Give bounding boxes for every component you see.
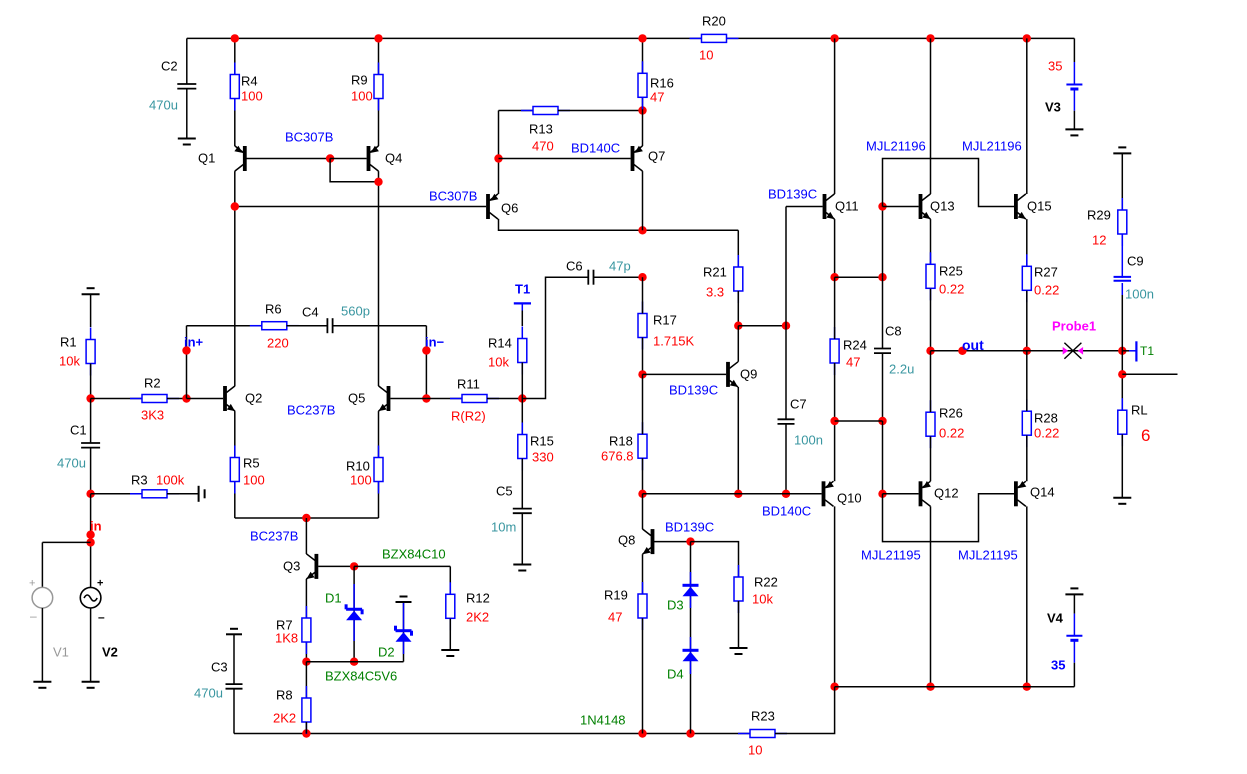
svg-text:D2: D2 [378,645,395,660]
svg-text:R(R2): R(R2) [451,409,486,424]
svg-text:–: – [98,610,105,624]
svg-text:C3: C3 [211,660,228,675]
svg-text:1.715K: 1.715K [653,334,695,349]
svg-text:R21: R21 [703,265,727,280]
svg-text:Q6: Q6 [501,201,518,216]
svg-text:MJL21196: MJL21196 [962,139,1022,154]
svg-text:R1: R1 [60,335,77,350]
svg-text:12: 12 [1092,233,1106,248]
svg-text:676.8: 676.8 [601,449,634,464]
svg-text:Q13: Q13 [930,199,955,214]
svg-text:Q5: Q5 [348,391,365,406]
svg-text:Q3: Q3 [283,559,300,574]
svg-text:3K3: 3K3 [141,408,164,423]
svg-text:R20: R20 [702,14,726,29]
svg-text:R2: R2 [144,376,161,391]
svg-text:+: + [29,578,35,590]
svg-text:in−: in− [425,335,445,350]
svg-text:C4: C4 [302,305,319,320]
svg-text:Q10: Q10 [837,491,862,506]
svg-text:BD139C: BD139C [665,520,714,535]
svg-text:100k: 100k [156,473,185,488]
svg-text:out: out [962,337,984,353]
svg-text:Q8: Q8 [618,533,635,548]
svg-text:470u: 470u [57,456,86,471]
svg-text:R17: R17 [653,313,677,328]
svg-text:R22: R22 [754,575,778,590]
svg-text:R29: R29 [1087,208,1111,223]
svg-text:10: 10 [699,48,713,63]
svg-text:330: 330 [532,450,554,465]
svg-text:47: 47 [608,610,622,625]
svg-text:1K8: 1K8 [275,631,298,646]
svg-text:2K2: 2K2 [466,610,489,625]
svg-text:–: – [30,609,37,623]
svg-text:D4: D4 [667,667,684,682]
svg-text:100: 100 [351,89,373,104]
svg-text:35: 35 [1051,658,1065,673]
svg-text:10m: 10m [491,520,516,535]
svg-text:C6: C6 [566,259,583,274]
svg-text:D3: D3 [667,598,684,613]
svg-text:R26: R26 [939,406,963,421]
svg-text:C7: C7 [790,397,807,412]
svg-text:R10: R10 [346,459,370,474]
svg-text:560p: 560p [341,304,370,319]
svg-text:RL: RL [1131,403,1148,418]
svg-text:470u: 470u [194,686,223,701]
svg-text:3.3: 3.3 [706,285,724,300]
svg-text:47p: 47p [609,259,631,274]
svg-text:Q15: Q15 [1027,199,1052,214]
svg-text:BD139C: BD139C [669,383,718,398]
svg-text:10: 10 [748,743,762,758]
svg-text:Q2: Q2 [245,391,262,406]
svg-text:R4: R4 [241,74,258,89]
svg-text:C5: C5 [496,484,513,499]
svg-text:R14: R14 [488,336,512,351]
svg-text:10k: 10k [59,354,80,369]
svg-text:R18: R18 [609,434,633,449]
svg-text:Q14: Q14 [1030,485,1055,500]
svg-text:Q12: Q12 [934,486,959,501]
svg-text:C2: C2 [161,59,178,74]
svg-text:BD139C: BD139C [768,187,817,202]
svg-text:Q9: Q9 [740,367,757,382]
svg-text:R28: R28 [1034,411,1058,426]
svg-text:in+: in+ [184,335,204,350]
svg-text:R19: R19 [604,588,628,603]
svg-text:MJL21195: MJL21195 [958,548,1018,563]
svg-text:Q4: Q4 [385,151,402,166]
svg-text:R25: R25 [939,264,963,279]
svg-text:100n: 100n [794,433,823,448]
svg-text:BD140C: BD140C [762,504,811,519]
svg-text:BC307B: BC307B [285,130,333,145]
svg-text:47: 47 [846,355,860,370]
svg-text:BC237B: BC237B [287,403,335,418]
svg-text:C9: C9 [1127,254,1144,269]
svg-text:470: 470 [532,139,554,154]
svg-text:Q1: Q1 [198,151,215,166]
svg-text:V3: V3 [1045,100,1061,115]
svg-text:R6: R6 [265,302,282,317]
svg-text:R12: R12 [466,591,490,606]
svg-text:100: 100 [350,473,372,488]
svg-text:100: 100 [243,473,265,488]
svg-text:V2: V2 [102,645,118,660]
svg-text:in: in [90,519,102,534]
svg-text:35: 35 [1048,59,1062,74]
svg-text:47: 47 [650,90,664,105]
svg-text:R5: R5 [243,456,260,471]
svg-text:BZX84C10: BZX84C10 [382,547,446,562]
svg-text:V1: V1 [53,645,69,660]
svg-text:BD140C: BD140C [571,141,620,156]
svg-text:2K2: 2K2 [273,711,296,726]
svg-text:D1: D1 [325,591,342,606]
svg-text:R11: R11 [457,377,480,392]
svg-text:10k: 10k [752,592,773,607]
svg-text:R23: R23 [751,709,775,724]
svg-text:BZX84C5V6: BZX84C5V6 [325,669,397,684]
svg-text:R13: R13 [529,122,553,137]
svg-text:Q11: Q11 [835,199,859,214]
svg-text:BC307B: BC307B [429,189,477,204]
svg-text:0.22: 0.22 [939,282,964,297]
svg-text:R8: R8 [276,688,293,703]
svg-text:C8: C8 [885,324,902,339]
svg-text:T1: T1 [1140,344,1154,358]
svg-text:T1: T1 [515,282,530,297]
svg-text:0.22: 0.22 [1034,283,1059,298]
svg-text:BC237B: BC237B [250,529,298,544]
svg-text:R3: R3 [131,473,148,488]
svg-text:6: 6 [1141,426,1150,445]
svg-text:+: + [97,578,103,590]
svg-text:R15: R15 [530,434,554,449]
svg-text:MJL21196: MJL21196 [866,139,926,154]
svg-text:10k: 10k [488,355,509,370]
svg-text:220: 220 [267,336,289,351]
svg-text:V4: V4 [1047,611,1064,626]
svg-text:1N4148: 1N4148 [580,713,626,728]
svg-text:Probe1: Probe1 [1052,319,1096,334]
svg-text:0.22: 0.22 [1034,426,1059,441]
svg-text:2.2u: 2.2u [889,362,914,377]
svg-text:100: 100 [241,89,263,104]
svg-text:MJL21195: MJL21195 [861,548,921,563]
svg-text:R27: R27 [1034,265,1058,280]
svg-text:C1: C1 [70,423,87,438]
svg-text:R16: R16 [650,76,674,91]
svg-text:R9: R9 [351,73,368,88]
svg-text:470u: 470u [149,98,178,113]
svg-text:100n: 100n [1125,287,1154,302]
svg-text:R24: R24 [843,338,867,353]
svg-text:0.22: 0.22 [939,426,964,441]
svg-text:Q7: Q7 [648,149,665,164]
